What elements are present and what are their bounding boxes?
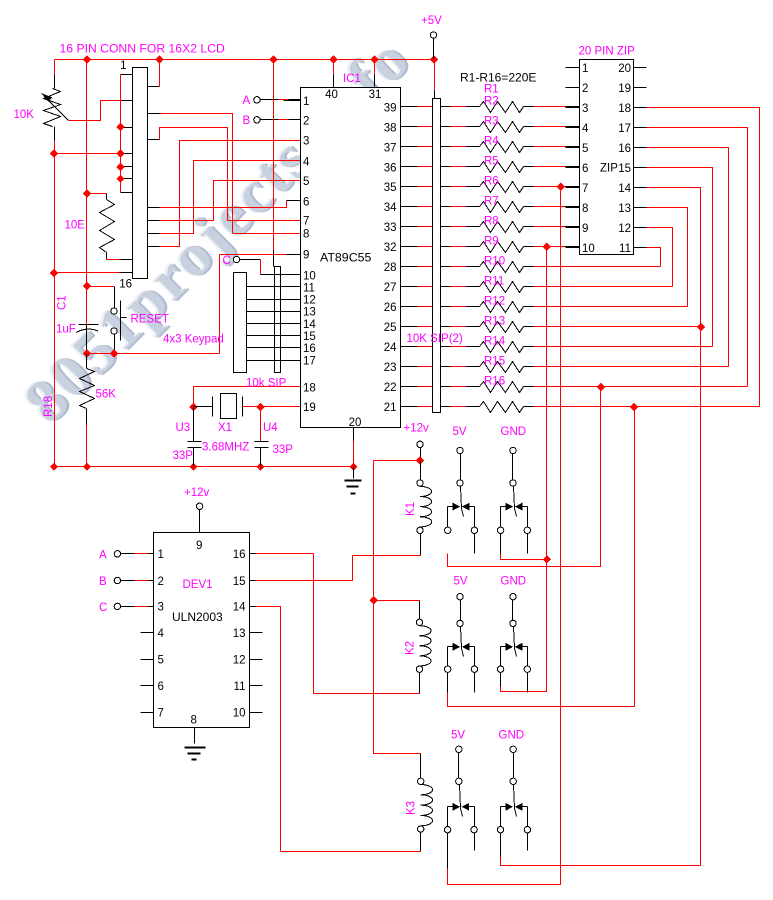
svg-text:39: 39 (384, 102, 397, 114)
switch top terminal circle (510, 746, 516, 752)
svg-text:6: 6 (582, 163, 588, 175)
svg-text:+5V: +5V (421, 15, 442, 27)
node (260.5,406.9) (256, 403, 264, 411)
svg-text:1uF: 1uF (56, 324, 76, 336)
switch right contact arm (468, 806, 475, 808)
wire K3 GND right stub (527, 833, 529, 851)
svg-text:AT89C55: AT89C55 (320, 251, 372, 265)
wire +5V to RP2 sip (434, 60, 436, 91)
svg-text:7: 7 (582, 183, 588, 195)
node (260.5,466.8) (256, 463, 264, 471)
connector keypad 4x3 (234, 273, 247, 373)
node (54,153.5) (50, 149, 58, 157)
wire IC row pin 36 (401, 166, 418, 168)
resistor R11 220E (480, 302, 524, 313)
node (120.5,167) (116, 163, 124, 171)
resistor pack 10k SIP (275, 267, 281, 373)
svg-text:14: 14 (618, 183, 631, 195)
wire +12v rail down (374, 460, 421, 462)
wire R5 to ZIP pin 7 (524, 186, 534, 188)
svg-text:15: 15 (233, 576, 246, 588)
relay K2 coil (419, 601, 421, 620)
svg-text:10k SIP: 10k SIP (246, 378, 287, 390)
resistor pack RP2 10K SIP(2) (433, 99, 441, 413)
wire K2 coil to ULN pin16 (314, 554, 420, 694)
wire K3 5V right stub (474, 833, 476, 851)
svg-text:R15: R15 (484, 356, 505, 368)
switch pole circle (457, 620, 463, 626)
node (353.5,466.8) (349, 463, 357, 471)
wire IC pin7 run (228, 220, 301, 222)
ZIP left pin 10 stub (566, 247, 580, 249)
switch pole circle (457, 480, 463, 486)
svg-text:33P: 33P (173, 450, 194, 462)
wire IC row pin 23 (401, 366, 418, 368)
switch right contact circle (471, 527, 477, 533)
wire K2 5V left lead (447, 673, 449, 693)
svg-text:5V: 5V (454, 576, 468, 588)
svg-text:13: 13 (618, 203, 631, 215)
resistor 10E (100, 200, 115, 253)
svg-text:R16: R16 (484, 376, 505, 388)
svg-text:33P: 33P (273, 444, 294, 456)
wire IC row pin 27 (401, 286, 418, 288)
switch wire (460, 454, 462, 480)
resistor R7 220E (480, 222, 524, 233)
svg-text:R3: R3 (484, 116, 499, 128)
svg-text:27: 27 (384, 282, 397, 294)
svg-text:R12: R12 (484, 296, 505, 308)
switch pole circle (456, 778, 462, 784)
wire ZIP12 loop (647, 228, 673, 287)
wire ULN pin14 to K3 coil (250, 606, 256, 608)
wire ZIP16 loop (647, 148, 729, 367)
wire pot wiper to LCD pin net (69, 101, 121, 121)
switch right contact arm (468, 646, 475, 648)
pot wiper arrow (47, 99, 69, 121)
wire R6 to ZIP pin 8 (524, 206, 534, 208)
wire K2 5V right stub (474, 673, 476, 693)
wire C1 bottom (86, 331, 88, 354)
node (87,286) (83, 282, 91, 290)
svg-text:C: C (99, 602, 107, 614)
svg-text:35: 35 (384, 182, 397, 194)
node junction x273.5 on +5V rail (269, 55, 277, 63)
ZIP left pin 5 stub (566, 147, 580, 149)
resistor R6 220E (480, 202, 524, 213)
wire IC row pin 21 (401, 406, 418, 408)
wire pin22 net down to K1 (448, 387, 601, 567)
wire LCD r-pin2 to IC pin8 (148, 113, 161, 115)
ZIP left pin 4 stub (566, 127, 580, 129)
wire crystal to IC pin19 (261, 406, 301, 408)
wire 10E bottom to LCD (106, 253, 108, 260)
switch left contact lead (500, 647, 502, 667)
switch right contact lead (474, 807, 476, 827)
svg-text:4x3 Keypad: 4x3 Keypad (163, 334, 224, 346)
switch right contact lead (527, 647, 529, 667)
svg-text:R5: R5 (484, 156, 499, 168)
wire R12 to ZIP net (524, 326, 534, 328)
resistor R8 220E (480, 242, 524, 253)
wire R15 to ZIP net (524, 386, 534, 388)
wire R2 to ZIP pin 4 (524, 126, 534, 128)
svg-text:15: 15 (303, 331, 316, 343)
op DEV1 ULN2003 driver (154, 533, 250, 728)
wire R1 to ZIP pin 3 (524, 106, 534, 108)
node (87,353.5) (83, 349, 91, 357)
svg-text:R4: R4 (484, 136, 499, 148)
svg-text:34: 34 (384, 202, 397, 214)
svg-text:R1: R1 (484, 84, 499, 96)
svg-text:GND: GND (501, 426, 527, 438)
wire IC pin8 run (233, 233, 301, 235)
svg-text:U3: U3 (176, 422, 191, 434)
resistor R18 56K (86, 354, 88, 369)
IC1 left pin stubs 1,2 (284, 100, 301, 102)
ZIP right pin 15 stub (634, 167, 647, 169)
svg-text:C: C (223, 255, 231, 267)
wire IC row pin 33 (401, 226, 418, 228)
switch left contact circle (444, 827, 450, 833)
svg-text:B: B (243, 115, 251, 127)
wire IC row pin 37 (401, 146, 418, 148)
svg-text:13: 13 (233, 628, 246, 640)
svg-text:R14: R14 (484, 336, 506, 348)
svg-text:16: 16 (119, 279, 132, 291)
resistor R14 220E (480, 362, 524, 373)
wire x87 vertical upper (86, 60, 88, 325)
switch left contact arm (501, 806, 507, 808)
resistor R1 220E (480, 102, 524, 113)
wire R11 to ZIP net (524, 306, 534, 308)
switch right contact circle (471, 666, 477, 672)
svg-text:11: 11 (303, 282, 315, 294)
crystal X1 3.68MHZ (194, 406, 213, 408)
wire LCD r-pin to IC pin6 long run (148, 207, 160, 209)
svg-text:10E: 10E (65, 220, 86, 232)
pin 31 riser (374, 60, 376, 75)
switch left contact arm (448, 806, 455, 808)
switch right contact lead (474, 647, 476, 667)
wire IC row pin 32 (401, 246, 418, 248)
svg-text:26: 26 (384, 302, 397, 314)
switch wire (512, 454, 514, 480)
switch right contact lead (527, 507, 529, 528)
connector ZIP 20 pin socket (580, 60, 634, 255)
svg-text:9: 9 (303, 250, 309, 262)
ground below ULN (185, 747, 206, 749)
resistor R5 220E (480, 182, 524, 193)
svg-text:ULN2003: ULN2003 (172, 610, 223, 624)
svg-text:28: 28 (384, 262, 397, 274)
svg-text:11: 11 (234, 681, 246, 693)
ZIP left pin 9 stub (566, 227, 580, 229)
svg-text:ZIP: ZIP (600, 163, 618, 175)
wire K2 GND right stub (527, 673, 529, 693)
svg-text:A: A (99, 550, 107, 562)
switch left contact lead (447, 507, 449, 528)
wire R8 to ZIP pin 10 (524, 246, 534, 248)
wire IC row pin 39 (401, 106, 418, 108)
switch left contact circle (497, 666, 503, 672)
node (193.5,466.8) (189, 463, 197, 471)
svg-text:4: 4 (158, 628, 165, 640)
switch right contact lead (527, 807, 529, 827)
svg-text:12: 12 (618, 223, 631, 235)
wire LCD left bus x120.5 (120, 75, 122, 193)
ZIP left pin 3 stub (566, 107, 580, 109)
switch left contact circle (445, 527, 451, 533)
svg-text:R1-R16=220E: R1-R16=220E (460, 71, 536, 85)
wire K1 GND left lead (500, 534, 502, 554)
ZIP right pin 19 stub (634, 87, 647, 89)
svg-text:4: 4 (582, 123, 589, 135)
switch blade (461, 627, 462, 649)
switch top terminal circle (456, 746, 462, 752)
svg-text:R9: R9 (484, 236, 499, 248)
node row5 (560.8,186.9) (557, 183, 565, 191)
relay K3 coil (420, 754, 422, 779)
svg-text:1: 1 (582, 63, 588, 75)
svg-text:R18: R18 (43, 396, 55, 417)
ZIP right pin 20 stub (634, 67, 647, 69)
svg-text:2: 2 (582, 83, 588, 95)
wire LCD pin15 row (55, 272, 120, 274)
ZIP right pin 12 stub (634, 227, 647, 229)
svg-text:10K: 10K (14, 109, 35, 121)
svg-text:9: 9 (196, 540, 202, 552)
switch right contact circle (524, 827, 530, 833)
svg-text:18: 18 (303, 382, 316, 394)
resistor R2 220E (480, 122, 524, 133)
svg-text:10: 10 (303, 271, 316, 283)
svg-text:1: 1 (158, 549, 164, 561)
wire ZIP15 loop (647, 168, 713, 347)
ZIP right pin 14 stub (634, 187, 647, 189)
svg-text:14: 14 (233, 602, 246, 614)
resistor R9 220E (480, 262, 524, 273)
svg-text:K2: K2 (405, 641, 417, 655)
wire IC row pin 28 (401, 266, 418, 268)
wire R16 to ZIP net (524, 406, 534, 408)
svg-text:1: 1 (303, 96, 309, 108)
wire ZIP17 loop (647, 128, 748, 387)
svg-text:5V: 5V (453, 426, 467, 438)
svg-text:12: 12 (303, 295, 316, 307)
svg-text:IC1: IC1 (343, 73, 361, 85)
node (87,193.5) (83, 189, 91, 197)
svg-text:10: 10 (582, 243, 595, 255)
svg-text:8: 8 (582, 203, 588, 215)
switch left contact lead (447, 807, 449, 827)
switch blade (514, 627, 515, 649)
wire R4 to ZIP pin 6 (524, 166, 534, 168)
svg-text:24: 24 (384, 342, 397, 354)
wire ZIP13 loop (647, 208, 688, 307)
svg-text:16: 16 (303, 343, 316, 355)
wire ZIP14 loop to K3 (647, 188, 701, 866)
wire LCD r-pin to +5V rail (148, 86, 160, 88)
wire +5V rail to pot (54, 60, 56, 75)
wire R9 to ZIP net (524, 266, 534, 268)
node (193.5,406.9) (189, 403, 197, 411)
switch blade (514, 785, 515, 809)
svg-text:5: 5 (158, 655, 164, 667)
node junction +5V terminal (430, 55, 438, 63)
svg-text:A: A (243, 95, 251, 107)
node junction x159.5 on +5V rail (155, 55, 163, 63)
wire ULN pin16 to K2 coil (250, 553, 256, 555)
svg-text:20 PIN ZIP: 20 PIN ZIP (579, 46, 636, 58)
svg-text:19: 19 (303, 402, 316, 414)
wire R3 to ZIP pin 5 (524, 146, 534, 148)
svg-text:10K SIP(2): 10K SIP(2) (407, 333, 463, 345)
wire ZIP18 loop (647, 108, 760, 407)
switch right contact circle (471, 827, 477, 833)
wire IC pin 20 (353, 428, 355, 441)
svg-text:5: 5 (582, 143, 588, 155)
ULN left stubs 4-7 (141, 632, 154, 634)
svg-text:32: 32 (384, 242, 397, 254)
svg-text:16 PIN CONN FOR 16X2 LCD: 16 PIN CONN FOR 16X2 LCD (60, 42, 225, 56)
ULN right stubs 13-10 (250, 632, 263, 634)
wire K3 gnd contact to ZIP14 net (501, 857, 701, 866)
svg-text:+12v: +12v (184, 487, 210, 499)
wire ULN pin15 to K1 coil (250, 580, 256, 582)
svg-text:DEV1: DEV1 (183, 579, 213, 591)
wire R10 to ZIP net (524, 286, 534, 288)
svg-text:3: 3 (582, 103, 588, 115)
node (54,273) (50, 269, 58, 277)
wire K3 GND left lead (500, 833, 502, 857)
switch left contact lead (500, 507, 502, 528)
svg-text:36: 36 (384, 162, 397, 174)
node (120.5,178.8) (116, 175, 124, 183)
svg-text:17: 17 (618, 123, 631, 135)
wire IC pin18 to crystal (194, 387, 301, 407)
svg-text:R8: R8 (484, 216, 499, 228)
resistor R4 220E (480, 162, 524, 173)
LCD left pin stubs (121, 74, 133, 76)
wire left vertical x54 (54, 141, 56, 467)
svg-text:18: 18 (618, 103, 631, 115)
node (546.8,559.5) (543, 555, 551, 563)
svg-text:21: 21 (384, 402, 397, 414)
wire K1 coil to ULN pin15 (353, 555, 421, 557)
switch blade (460, 785, 461, 809)
wire IC row pin 38 (401, 126, 418, 128)
svg-text:31: 31 (369, 89, 382, 101)
capacitor C1 1uF (79, 324, 99, 326)
potentiometer RV1 10K (54, 75, 56, 89)
resistor R16 220E (480, 402, 524, 413)
node (54,466.8) (50, 463, 58, 471)
switch right contact arm (521, 646, 528, 648)
wire pin35 net down to K3 (448, 187, 561, 885)
wire LCD r-pin to IC pin4 (148, 233, 160, 235)
svg-text:25: 25 (384, 322, 397, 334)
svg-text:6: 6 (158, 681, 164, 693)
switch wire (460, 600, 462, 621)
svg-text:1: 1 (120, 60, 126, 72)
wire K1 5V right stub (474, 534, 476, 554)
switch wire (513, 753, 515, 779)
svg-text:GND: GND (499, 730, 525, 742)
op IC1 AT89C55 microcontroller (301, 88, 401, 428)
switch right contact arm (521, 506, 528, 508)
resistor R13 220E (480, 342, 524, 353)
wire IC row pin 34 (401, 206, 418, 208)
svg-text:16: 16 (618, 143, 631, 155)
wire +5V to keypad SIP (273, 60, 275, 251)
switch left contact arm (501, 506, 508, 508)
node row12 (701,326.9) (697, 323, 705, 331)
wire LCD r-pin to IC pin5 (148, 220, 160, 222)
switch pole circle (510, 620, 516, 626)
node row8 (546.8,246.9) (543, 243, 551, 251)
node (87,466.8) (83, 463, 91, 471)
svg-text:K3: K3 (406, 801, 418, 815)
wire +12v to K2 coil (374, 600, 420, 602)
svg-text:12: 12 (233, 655, 246, 667)
svg-text:R2: R2 (484, 96, 499, 108)
ZIP right pin 17 stub (634, 127, 647, 129)
svg-text:R10: R10 (484, 256, 505, 268)
ZIP right pin 18 stub (634, 107, 647, 109)
capacitor U3 33P (193, 407, 195, 442)
svg-text:9: 9 (582, 223, 588, 235)
svg-text:8: 8 (303, 229, 309, 241)
switch left contact circle (497, 527, 503, 533)
wire K2 GND left lead (500, 673, 502, 687)
svg-text:56K: 56K (96, 389, 117, 401)
svg-text:2: 2 (303, 116, 309, 128)
relay K1 coil (420, 461, 422, 480)
node (114,353.5) (110, 349, 118, 357)
switch left contact lead (447, 647, 449, 667)
wire K3 5V left lead (447, 833, 449, 869)
switch top terminal circle (510, 594, 516, 600)
svg-text:37: 37 (384, 142, 397, 154)
svg-text:20: 20 (349, 417, 362, 429)
node row16 (634,406.9) (630, 403, 638, 411)
node (120.5,127.2) (116, 123, 124, 131)
wire R14 to ZIP net (524, 366, 534, 368)
wire K1 gnd contact to pin32 net (501, 554, 547, 560)
ZIP left pin 1 stub (566, 67, 580, 69)
switch left contact circle (497, 827, 503, 833)
svg-text:R11: R11 (484, 276, 504, 288)
ZIP right pin 13 stub (634, 207, 647, 209)
svg-text:6: 6 (303, 196, 309, 208)
svg-text:8: 8 (191, 715, 197, 727)
wire ground bus (55, 466, 354, 468)
svg-text:23: 23 (384, 362, 397, 374)
wire ZIP11 loop (647, 248, 661, 267)
wire R7 to ZIP pin 9 (524, 226, 534, 228)
svg-text:13: 13 (303, 307, 316, 319)
switch RESET (87, 286, 115, 288)
svg-text:B: B (99, 576, 107, 588)
svg-text:22: 22 (384, 382, 397, 394)
switch blade (514, 487, 515, 509)
switch left contact circle (445, 666, 451, 672)
svg-text:7: 7 (158, 707, 164, 719)
ZIP left pin 7 stub (566, 187, 580, 189)
node row15 (601,386.9) (597, 383, 605, 391)
svg-text:17: 17 (303, 355, 316, 367)
